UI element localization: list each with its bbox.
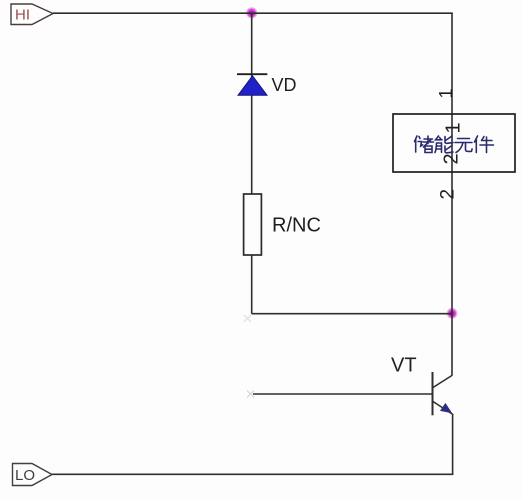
svg-text:2: 2 [438,189,459,200]
transistor VT emitter diagonal [433,402,453,415]
wire bottom (LO to emitter corner) [52,473,453,475]
svg-text:VD: VD [272,75,297,95]
wire top (HI to top-right corner) [53,12,453,14]
svg-text:R/NC: R/NC [272,215,321,237]
wire bottom horizontal (resistor leg to right junction) [252,313,452,315]
resistor R/NC [244,194,262,255]
svg-text:1: 1 [443,122,465,133]
svg-text:HI: HI [15,6,30,23]
svg-text:LO: LO [15,467,35,484]
svg-text:VT: VT [391,355,417,377]
no-connect mark at base wire end [247,391,254,398]
svg-text:2: 2 [441,153,463,164]
transistor VT collector diagonal [433,375,452,387]
transistor VT base bar [432,372,434,415]
wire right vertical (top corner through storage box to junction) [451,13,453,375]
diode VD [237,74,267,95]
junction node right [447,308,458,319]
transistor VT base wire [253,393,433,395]
junction node top [246,7,257,18]
transistor VT emitter arrow [440,403,452,413]
no-connect mark at resistor corner [244,315,251,322]
label 储能元件 (drawn strokes) [415,136,494,153]
port LO [13,464,53,486]
wire left vertical (junction down through diode and resistor) [251,13,253,314]
svg-text:1: 1 [436,88,456,98]
component box 储能元件 [393,114,515,172]
port HI [11,4,53,25]
wire emitter vertical [452,415,454,475]
